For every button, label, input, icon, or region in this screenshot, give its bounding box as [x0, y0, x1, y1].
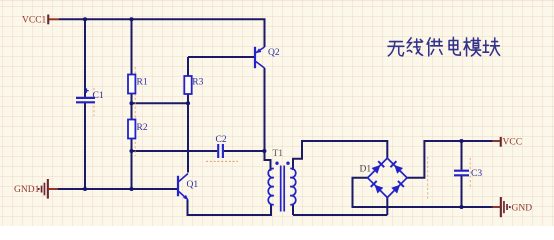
svg-text:VCC: VCC [503, 138, 523, 148]
svg-text:R2: R2 [137, 123, 148, 133]
svg-text:D1: D1 [360, 164, 372, 174]
svg-text:C3: C3 [471, 169, 482, 179]
svg-text:R1: R1 [137, 77, 148, 87]
svg-text:C2: C2 [216, 135, 227, 145]
svg-text:VCC1: VCC1 [22, 15, 47, 25]
svg-text:C1: C1 [93, 91, 104, 101]
svg-text:T1: T1 [273, 149, 284, 159]
svg-text:R3: R3 [192, 77, 203, 87]
svg-text:Q1: Q1 [187, 180, 199, 190]
svg-text:Q2: Q2 [268, 48, 280, 58]
svg-text:GND1: GND1 [14, 185, 40, 195]
svg-text:GND: GND [512, 204, 533, 214]
